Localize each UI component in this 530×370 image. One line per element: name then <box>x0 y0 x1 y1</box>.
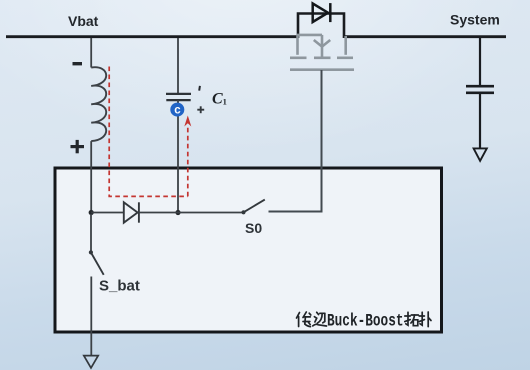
red dashed current loop <box>109 67 188 197</box>
capacitor C2 (output cap) <box>466 86 494 93</box>
capacitor C1 plates <box>166 94 191 100</box>
wire: gate stem down to switch S0 <box>269 70 322 212</box>
transistor Q1 (high-side MOSFET, grey) <box>290 35 354 70</box>
label: C1 value <box>212 91 227 108</box>
diode D1 (bypass diode on bump) <box>313 3 331 22</box>
wire: top bus right segment (System rail) <box>345 35 507 38</box>
label: minus polarity at inductor top <box>73 62 83 65</box>
char 边 <box>317 312 319 314</box>
wire: output cap to ground arrow <box>479 93 481 148</box>
wire: junction A down to S_bat <box>90 214 92 252</box>
current sensor (blue circle with c) <box>170 103 184 117</box>
label: plus polarity at inductor bottom <box>71 140 85 153</box>
wire: diode D2 to switch S0 <box>139 212 244 214</box>
svg-text:System: System <box>450 12 500 28</box>
svg-text:c: c <box>174 104 181 116</box>
wire: System branch from bus down to output cap <box>479 38 481 85</box>
svg-text:Buck-Boost: Buck-Boost <box>327 311 404 331</box>
switch S_bat <box>89 250 104 275</box>
node B: junction dot right (C1/diode anode-cathode) <box>175 210 180 215</box>
node Vbat tap: wire from bus down to inductor <box>90 38 92 68</box>
svg-text:C: C <box>212 91 223 108</box>
wire: capacitor branch from bus to C1 <box>177 38 179 93</box>
svg-text:S0: S0 <box>245 220 262 236</box>
char 拓 <box>405 315 410 317</box>
char 扑 <box>419 315 424 317</box>
node A: junction dot left (inductor/diode/S_bat) <box>89 210 94 215</box>
svg-text:Vbat: Vbat <box>68 13 99 29</box>
red arrowhead pointing up at sensor <box>184 116 191 127</box>
ground: open arrow below box <box>84 356 98 368</box>
box: low-side buck-boost topology outline <box>55 168 442 332</box>
label: plus near C1 <box>197 106 204 113</box>
wire: top bus left segment (Vbat rail) <box>6 35 298 38</box>
char 低 <box>297 313 300 319</box>
switch S0 <box>241 200 264 215</box>
label: 低边Buck-Boost拓扑 (caption, CJK drawn as strokes) <box>297 312 327 327</box>
label: current I tick near C1 <box>198 86 201 91</box>
svg-text:1: 1 <box>223 97 227 107</box>
inductor L1 <box>91 67 106 141</box>
ground: open arrow on System branch <box>474 148 487 160</box>
wire: inductor bottom into box to junction <box>90 141 92 212</box>
wire: junction A to diode D2 <box>91 212 124 214</box>
wire: C1 bottom through current sensor into box <box>177 100 179 212</box>
wire: diode bypass bump over MOSFET <box>298 14 344 39</box>
svg-text:S_bat: S_bat <box>99 278 140 295</box>
wire: S_bat lower lead through box bottom <box>90 277 92 356</box>
diode D2 (inside box) <box>124 202 139 222</box>
